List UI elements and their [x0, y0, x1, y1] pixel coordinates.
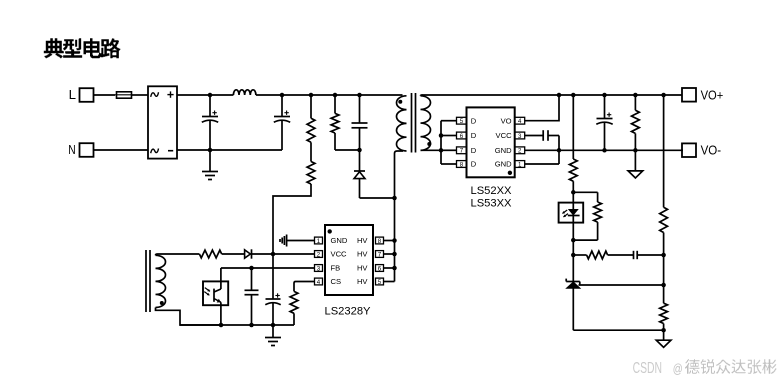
svg-text:HV: HV [357, 264, 368, 273]
resistor R2 [307, 162, 315, 185]
svg-text:L: L [69, 87, 76, 102]
terminal VO+ label [701, 87, 724, 102]
wire VO+ rail [422, 93, 683, 98]
wire HV bus [384, 198, 397, 282]
resistor R7 [571, 192, 601, 242]
terminal VO- [682, 143, 696, 157]
diode D2 [222, 249, 252, 258]
label LS2328Y [324, 305, 371, 317]
capacitor C8 [265, 254, 280, 325]
svg-text:2: 2 [518, 148, 522, 155]
terminal N label [68, 142, 75, 157]
wire TL431 ref [579, 283, 666, 288]
ground [202, 150, 218, 180]
transformer T1 core [412, 93, 416, 153]
optocoupler U3 LED [559, 192, 584, 240]
svg-text:VO+: VO+ [701, 87, 724, 102]
diode D1 [354, 150, 365, 198]
resistor R9 [632, 95, 640, 150]
inductor L1 [233, 90, 256, 95]
svg-text:LS52XX: LS52XX [470, 185, 512, 197]
resistor R11 [660, 303, 668, 340]
op-amp U2 LS52XX [457, 107, 525, 177]
fuse F1 [115, 92, 132, 98]
svg-text:VCC: VCC [496, 131, 513, 140]
svg-text:GND: GND [495, 160, 512, 169]
watermark text CSDN [633, 359, 777, 377]
svg-text:3: 3 [518, 133, 522, 140]
resistor R10 [660, 95, 668, 303]
capacitor C3 [352, 93, 368, 150]
resistor R6 [569, 95, 577, 195]
resistor R5 [290, 282, 314, 326]
wire L to fuse [94, 94, 116, 96]
wire LED to TL431 [571, 240, 576, 281]
svg-text:LS53XX: LS53XX [470, 197, 512, 209]
capacitor C5 [596, 95, 612, 150]
terminal L [80, 88, 94, 102]
svg-text:4: 4 [518, 118, 522, 125]
resistor R8 [573, 251, 633, 259]
svg-text:FB: FB [331, 264, 341, 273]
node secondary pin bus [439, 121, 457, 164]
svg-text:D: D [471, 131, 477, 140]
resistor R3 [331, 93, 339, 150]
svg-text:D: D [471, 160, 477, 169]
wire bottom rail bridge to C2 [177, 149, 282, 151]
transformer T1 secondary winding [421, 95, 442, 150]
capacitor C6 [634, 251, 666, 259]
svg-text:CSDN: CSDN [633, 360, 662, 377]
svg-text:N: N [68, 142, 75, 157]
wire fuse to bridge [132, 94, 148, 96]
wire VCC line [252, 252, 315, 257]
capacitor C1 [202, 93, 218, 153]
wire U2 pin1 GND [525, 136, 562, 165]
wire U2 pin4 VO to VO+ rail [525, 93, 562, 121]
title text 典型电路 [44, 38, 121, 58]
wire R2 to VCC node [273, 184, 311, 254]
terminal L label [69, 87, 76, 102]
wire VO- rail [525, 148, 683, 153]
wire TL431 anode to ground [573, 328, 666, 333]
terminal VO+ [682, 88, 696, 102]
wire bottom rail [180, 323, 294, 328]
transformer T2 core [146, 250, 150, 312]
label LS52XX [470, 185, 512, 197]
capacitor C7 [245, 268, 259, 325]
ground VO- rail [628, 150, 643, 178]
svg-text:@: @ [673, 361, 683, 376]
ground divider [656, 340, 671, 347]
wire N to bridge [94, 149, 149, 151]
bridge rectifier BR1 [148, 86, 177, 158]
wire FB line [221, 266, 315, 271]
wire top rail inductor to transformer [256, 94, 403, 96]
svg-text:HV: HV [357, 236, 368, 245]
wire snubber to primary node [360, 196, 397, 201]
svg-text:D: D [471, 146, 477, 155]
op-amp U1 LS2328Y [315, 225, 384, 295]
svg-text:VO-: VO- [701, 143, 722, 158]
optocoupler U3 phototransistor [203, 268, 228, 325]
svg-text:HV: HV [357, 250, 368, 259]
ground C8 [265, 325, 281, 346]
svg-text:GND: GND [331, 236, 348, 245]
transformer T1 primary winding [395, 96, 407, 198]
terminal VO- label [701, 143, 722, 158]
ground U1 pin1 [280, 235, 315, 247]
svg-text:LS2328Y: LS2328Y [324, 305, 371, 317]
svg-text:1: 1 [518, 161, 522, 168]
wire top rail bridge to inductor [177, 94, 233, 96]
shunt regulator U4 TL431 [566, 279, 580, 331]
svg-text:CS: CS [331, 277, 342, 286]
capacitor C2 [274, 93, 290, 150]
label LS53XX [470, 197, 512, 209]
wire snubber bottom [335, 148, 362, 153]
transformer T2 auxiliary winding [156, 254, 222, 325]
resistor R4 [158, 250, 222, 258]
svg-text:D: D [471, 116, 477, 125]
svg-text:HV: HV [357, 277, 368, 286]
capacitor C4 [525, 130, 559, 141]
svg-text:GND: GND [495, 146, 512, 155]
resistor R1 [307, 93, 315, 162]
svg-text:VCC: VCC [331, 250, 348, 259]
svg-text:VO: VO [501, 116, 512, 125]
terminal N [80, 143, 94, 157]
